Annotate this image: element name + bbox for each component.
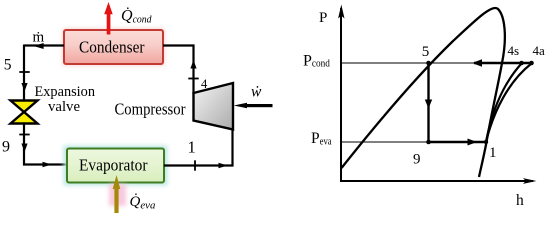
flow arrowhead (down, above valve)	[21, 83, 27, 92]
svg-text:Evaporator: Evaporator	[79, 155, 148, 174]
svg-text:Pcond: Pcond	[303, 52, 331, 69]
svg-text:1: 1	[489, 145, 497, 161]
flow arrowhead (right, into evaporator)	[43, 162, 52, 168]
svg-text:Peva: Peva	[311, 130, 332, 147]
pink halo behind Q_eva arrow	[109, 184, 126, 206]
isobar P_cond (thin)	[341, 62, 531, 64]
state tick 9	[19, 134, 29, 136]
heat-in arrow Q_eva (olive)	[113, 175, 121, 213]
svg-text:4s: 4s	[508, 43, 520, 58]
svg-text:Q̇cond: Q̇cond	[121, 7, 152, 25]
flow arrowhead (left)	[34, 43, 44, 49]
svg-text:ẇ: ẇ	[251, 83, 262, 100]
process 4a to 5 (condensation, thick with left arrow)	[474, 62, 532, 64]
P-h diagram: x-axis h	[340, 180, 533, 182]
svg-text:ṁ: ṁ	[33, 30, 45, 46]
evaporator glow	[64, 146, 168, 186]
state dot 1	[484, 140, 488, 144]
condenser glow	[63, 29, 165, 66]
state dot 9 corner	[426, 140, 431, 145]
compressor (trapezoid)	[194, 83, 234, 130]
svg-text:valve: valve	[48, 99, 80, 115]
state tick 5	[19, 71, 29, 73]
state dot 4s	[519, 61, 524, 66]
condenser box	[64, 30, 163, 64]
wire valve to evaporator (left bottom L)	[24, 124, 67, 165]
svg-text:5: 5	[422, 44, 430, 60]
flow arrowhead (up)	[190, 60, 196, 69]
state dot 4a	[529, 61, 534, 66]
svg-text:Compressor: Compressor	[115, 100, 186, 119]
compression curve 1 to 4s (isentropic)	[486, 64, 522, 143]
svg-text:5: 5	[4, 57, 12, 74]
state tick 1	[194, 160, 196, 170]
evaporator box	[67, 149, 164, 183]
svg-text:1: 1	[188, 138, 196, 157]
compression curve 1 to 4a (actual)	[486, 64, 532, 143]
heat-out arrow Q_cond (red)	[104, 2, 113, 35]
svg-text:h: h	[516, 192, 524, 209]
wire evaporator to compressor	[164, 129, 233, 166]
svg-text:4: 4	[201, 77, 208, 91]
svg-text:9: 9	[2, 139, 10, 156]
P-h diagram: y-axis P	[340, 8, 342, 181]
saturation dome	[342, 8, 505, 177]
svg-text:Condenser: Condenser	[79, 37, 145, 56]
flow arrowhead (down, above corner)	[21, 144, 27, 153]
svg-text:Expansion: Expansion	[35, 84, 96, 100]
process 9 to 1 (evaporation, right)	[429, 141, 487, 143]
expansion valve (bowtie)	[11, 101, 38, 124]
state tick 4	[188, 78, 198, 80]
wire left vertical (5 to valve)	[23, 45, 25, 102]
process 5 to 9 (expansion, down)	[427, 63, 429, 142]
isobar P_eva (thin)	[341, 141, 428, 143]
svg-text:4a: 4a	[533, 43, 546, 58]
svg-text:9: 9	[413, 151, 421, 167]
svg-text:P: P	[319, 10, 327, 26]
flow arrowhead (right, before corner)	[219, 163, 228, 169]
wire condenser to expansion valve (top-left horizontal)	[24, 44, 64, 46]
wire compressor to condenser	[163, 46, 194, 95]
svg-text:Q̇eva: Q̇eva	[130, 194, 156, 212]
state dot 5	[426, 61, 431, 66]
work-in arrow w-dot	[234, 103, 273, 108]
